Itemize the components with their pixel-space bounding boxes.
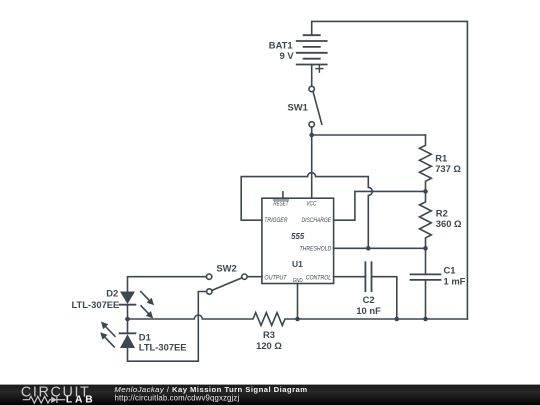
wire CONTROL to C2 [334,276,366,278]
svg-text:LTL-307EE: LTL-307EE [72,299,120,310]
wire C2 to rail [372,277,397,319]
footer text [114,385,307,402]
svg-text:LTL-307EE: LTL-307EE [139,341,187,352]
svg-text:http://circuitlab.com/cdwv9qgx: http://circuitlab.com/cdwv9qgxzgjzj [115,393,240,402]
resistor R2 [420,191,432,248]
svg-text:R3: R3 [263,329,275,340]
node junction R1/R2/discharge [423,189,428,194]
battery BAT1 [297,35,327,72]
LED D2 [120,292,136,305]
svg-text:TRIGGER: TRIGGER [264,217,287,224]
wire ground rail: battery minus, top and right edge [312,21,468,319]
wire DISCHARGE net [334,191,426,220]
svg-text:DISCHARGE: DISCHARGE [302,217,332,224]
wire SW2 throw2 down [198,292,206,362]
label BAT1 / 9 V [269,40,295,62]
wire SW1 to node VCC [311,127,313,135]
node junction D2/D1/rail [125,317,130,322]
wire bottom rail with hop over SW2 wire and resistor R3 inline [128,313,468,326]
svg-text:9 V: 9 V [280,50,295,61]
node junction C1/rail [423,317,428,322]
LED D1 [120,333,136,348]
svg-text:737 Ω: 737 Ω [435,163,461,174]
svg-text:THRESHOLD: THRESHOLD [300,245,332,252]
label R3 / 120 ohm [256,329,282,351]
wire D1 anode down to bottom wire [128,348,199,361]
wire C1 bottom to rail [425,280,427,319]
svg-text:10 nF: 10 nF [356,305,381,316]
svg-text:LAB: LAB [66,394,96,405]
pin label RESET with overline [273,200,289,207]
svg-text:360 Ω: 360 Ω [436,218,462,229]
svg-text:1 mF: 1 mF [444,275,466,286]
capacitor C2 [365,262,371,291]
label D2 / LTL-307EE [72,287,120,310]
label R2 / 360 ohm [436,208,462,229]
label D1 / LTL-307EE [139,332,187,353]
svg-text:120 Ω: 120 Ω [256,340,282,351]
wire node to R1 top [312,134,426,136]
node junction GND/rail [295,317,300,322]
wire battery plus to SW1 [311,65,313,87]
svg-text:C2: C2 [363,294,375,305]
switch SW2 [206,274,247,294]
label C1 / 1 mF [444,265,466,287]
LED D2 arrows [141,292,154,319]
svg-text:VCC: VCC [306,201,316,208]
resistor R1 [420,135,432,191]
svg-text:CONTROL: CONTROL [306,274,332,281]
label R1 / 737 ohm [435,153,461,174]
wire THRESHOLD net [334,247,426,249]
svg-text:RESET: RESET [273,200,289,207]
svg-text:SW2: SW2 [216,263,236,274]
op-amp/timer U1 555 box [262,198,334,283]
svg-text:OUTPUT: OUTPUT [264,275,287,282]
wire GND pin to rail [297,284,299,320]
wire R2 bottom to C1 [425,248,427,274]
wire OUTPUT to SW2 [247,276,262,278]
LED D1 arrows [100,322,115,347]
wire D2 cathode to rail node [127,305,129,319]
wire TRIGGER net with hop over VCC [241,173,372,249]
svg-text:U1: U1 [292,259,303,269]
wire VCC drop to U1 [311,135,313,198]
svg-text:D2: D2 [106,287,118,298]
svg-text:C1: C1 [444,265,456,276]
node junction SW1/R1/VCC [309,133,314,138]
svg-text:SW1: SW1 [287,102,307,113]
footer black bar [0,385,540,405]
capacitor C1 [411,274,441,280]
label C2 / 10 nF [356,294,381,316]
pin RESET stub [282,192,284,198]
svg-text:555: 555 [291,231,304,241]
wire SW2 throw1 to D2 [128,277,207,292]
node junction trigger/threshold [366,246,371,251]
wire rail node to D1 [127,319,129,333]
CircuitLab logo [21,384,96,405]
node junction R2/threshold/C1 [423,246,428,251]
svg-text:BAT1: BAT1 [269,40,293,51]
node junction C2/rail [395,317,400,322]
switch SW1 [309,86,322,127]
